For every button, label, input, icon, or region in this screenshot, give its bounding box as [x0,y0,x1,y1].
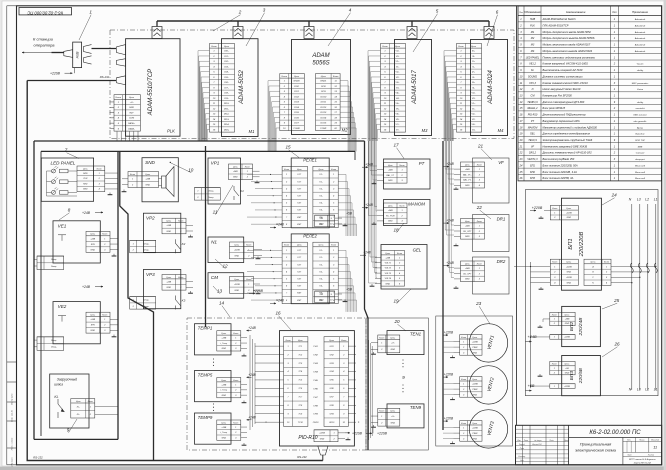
svg-text:Цепь: Цепь [472,379,477,381]
wire stubs &#1056;&#1045;&#1051;&#1045;1 right [335,174,357,236]
node +220V VENT1 [443,330,454,336]
svg-text:Датчик температурный ДТ3-800: Датчик температурный ДТ3-800 [542,100,585,104]
ground TEMP9 [242,443,247,445]
svg-text:Advantech: Advantech [634,44,646,47]
svg-text:K3: K3 [182,299,186,303]
svg-text:15: 15 [285,145,291,150]
svg-text:+24В: +24В [221,426,226,429]
wire stubs VE1 [110,239,118,250]
svg-text:Блок питания 220/5В, 3А: Блок питания 220/5В, 3А [543,176,574,180]
svg-text:Advantech: Advantech [634,50,646,53]
svg-text:TEMP5: TEMP5 [198,373,213,378]
fan VENT1 [469,324,507,362]
module PLK ADAM-5510/TCP [126,39,180,137]
svg-text:Конт: Конт [211,46,217,48]
wire harness vertical right of RELE [365,141,369,450]
svg-text:Конт: Конт [399,205,404,207]
ground VP3 [188,291,193,293]
svg-text:Клапан вакуумный VACOM-KLS-160: Клапан вакуумный VACOM-KLS-160S [543,62,589,66]
svg-text:SND: SND [145,160,155,165]
svg-text:Конт: Конт [245,166,250,168]
svg-text:Иванов И.И.: Иванов И.И. [532,444,542,446]
svg-text:1: 1 [479,268,480,270]
wire stubs TEMP5 [241,385,247,396]
svg-text:Аргус: Аргус [636,126,644,129]
svg-text:M2: M2 [531,37,535,40]
svg-text:t_Temp: t_Temp [220,389,228,392]
svg-text:Откр-: Откр- [51,266,57,268]
pin table BP3 output [550,361,575,374]
svg-text:Загрузочный: Загрузочный [57,378,77,382]
pin table TEMP9 [217,420,241,440]
wire risers PID to TEN [369,340,373,440]
svg-text:GND: GND [320,439,325,441]
svg-text:COM1: COM1 [320,128,327,130]
svg-text:Принципиальная: Принципиальная [580,442,612,447]
svg-text:DI5-: DI5- [224,77,228,79]
svg-text:KL-: KL- [77,414,80,416]
svg-text:Vacom: Vacom [637,64,644,66]
device VP3 pneumatic valve [143,270,180,309]
svg-text:Mean well: Mean well [635,172,645,174]
svg-text:электрическая схема: электрическая схема [575,448,616,453]
svg-text:DI1-: DI1- [224,56,228,58]
svg-text:Насос вакуумный Varian SH110: Насос вакуумный Varian SH110 [543,87,581,91]
svg-text:GND: GND [465,236,470,238]
section boundary power supplies [525,190,658,396]
controller PID-R10 [280,331,355,446]
svg-text:DI7-: DI7- [224,87,228,89]
svg-text:K1-: K1- [319,257,322,259]
svg-text:1: 1 [554,386,555,388]
device TEN1 heater [387,331,424,355]
svg-text:DO14: DO14 [320,116,326,119]
svg-text:Конт: Конт [552,208,557,210]
wire stubs CM [254,284,261,290]
svg-text:Цепь: Цепь [297,245,302,247]
device CM compressor [208,273,244,299]
svg-text:HUB: HUB [76,51,80,59]
node +220V supply to HUB [50,68,74,76]
ground TEMP5 [242,401,247,403]
svg-text:GND: GND [222,437,227,439]
wire stubs TEMP9 [241,427,247,438]
svg-text:Масса: Масса [640,440,645,442]
wire stubs &#1056;&#1045;&#1051;&#1045;2 left [247,250,282,301]
svg-text:Лит.: Лит. [626,440,631,442]
svg-text:MANOM: MANOM [408,202,425,207]
svg-text:DI8-: DI8- [224,93,228,95]
svg-text:RED: RED [83,183,88,185]
wire stubs VF [454,169,461,185]
pin table VE1 [86,231,110,252]
svg-text:Цепь: Цепь [294,76,300,78]
svg-text:GND: GND [146,184,151,186]
svg-text:M2: M2 [342,128,348,133]
ground LED PANEL [108,193,113,195]
svg-text:+24В: +24В [221,383,226,386]
svg-text:DR1,2: DR1,2 [529,152,537,155]
open-close connector table VP1 [194,188,220,201]
svg-text:Кол: Кол [612,11,617,14]
svg-text:1: 1 [333,174,334,176]
device TEMP5 temperature sensor [195,371,232,402]
svg-text:1: 1 [401,210,402,212]
svg-text:L1: L1 [654,388,658,392]
svg-text:Конт: Конт [130,174,135,176]
svg-text:L2: L2 [645,198,649,202]
pin table LED PANEL [77,166,105,192]
svg-text:GND: GND [222,348,227,350]
svg-text:SME: SME [638,146,643,148]
svg-text:GND: GND [391,423,396,425]
wire stubs GEL [375,258,381,284]
svg-text:SPS: SPS [91,244,96,246]
svg-text:masterkit: masterkit [636,107,645,110]
svg-text:VENT1,3: VENT1,3 [527,158,538,161]
svg-text:N: N [532,88,534,91]
pin table BP1 output left [550,259,578,285]
svg-text:Группа МТ11-112: Группа МТ11-112 [634,463,652,465]
svg-text:Лист: Лист [626,455,632,457]
node +24V TEMP9 [247,415,257,420]
open-close connector table VP2 [130,240,156,253]
antenna connector M3 [407,21,417,39]
pin table VE2 [86,312,110,333]
svg-text:V6-: V6- [396,119,400,121]
svg-text:БП2: БП2 [569,322,575,332]
svg-text:V0-: V0- [472,98,476,100]
svg-text:Цепь: Цепь [298,340,303,342]
node +24V DR2 [443,261,455,266]
svg-text:1: 1 [133,300,134,302]
device LED PANEL [41,158,93,201]
ground VP1 [255,181,260,183]
svg-text:DR1: DR1 [497,217,506,222]
antenna connector M1 [233,21,243,39]
svg-text:6: 6 [496,10,499,15]
svg-text:Цепь: Цепь [565,315,570,317]
svg-text:GND0: GND0 [294,81,301,83]
relay block &#1056;&#1045;&#1051;&#1045;1 [291,158,329,228]
ground BP2 [538,325,543,327]
svg-text:Конт: Конт [382,46,388,48]
svg-text:Модуль аналогового ввода ADAM-: Модуль аналогового ввода ADAM-5017 [543,43,591,47]
ground TEN1 [371,352,376,354]
svg-text:K2-: K2- [319,196,322,198]
connector forks on HUB [84,45,92,65]
pin table PID left [284,337,308,427]
pin table VENT3 [460,421,482,442]
svg-text:DO11: DO11 [321,102,327,104]
svg-text:SMC pneumatics: SMC pneumatics [632,82,650,85]
pin table BP2 input [550,335,575,340]
svg-text:PWM: PWM [472,389,477,391]
svg-text:Цепь: Цепь [224,46,230,48]
svg-text:Цепь: Цепь [465,263,470,265]
svg-text:HUB: HUB [530,18,536,21]
svg-text:DO8: DO8 [321,86,326,88]
svg-text:Конт: Конт [97,168,102,170]
svg-text:KL-: KL- [77,407,80,409]
svg-text:VOLT2: VOLT2 [385,268,392,270]
svg-text:1: 1 [104,319,105,321]
svg-text:Конт: Конт [397,253,402,255]
svg-text:RS-232: RS-232 [33,455,43,459]
power supply BP1 220/220V [562,198,602,290]
svg-text:+220В: +220В [472,341,479,343]
section boundary TEMP-PID (dashed) [187,318,366,450]
ground N1 [256,257,261,259]
device PT [384,159,431,189]
wires BP1 to mains [611,266,657,284]
svg-text:PT: PT [419,161,425,166]
svg-text:t_Temp: t_Temp [220,431,228,434]
svg-text:+24В: +24В [388,168,393,171]
svg-text:Лист: Лист [523,440,529,442]
svg-text:GEL: GEL [530,133,536,136]
svg-text:МГТУ имени Н.Э.Баумана: МГТУ имени Н.Э.Баумана [629,459,656,461]
svg-text:CH8: CH8 [313,405,318,407]
device SND speaker [142,158,178,202]
svg-text:K2: K2 [182,242,186,246]
svg-text:VP1: VP1 [211,161,220,166]
svg-text:GND: GND [167,231,172,233]
ground VENT3 [450,441,455,443]
svg-text:BAL_VT+: BAL_VT+ [463,173,472,176]
svg-text:GND: GND [235,290,240,292]
svg-text:+220В: +220В [377,432,388,436]
svg-text:VE1: VE1 [58,223,67,228]
mains lines N L3 L2 L1 [629,198,658,392]
svg-text:1: 1 [133,243,134,245]
svg-text:К станции: К станции [33,37,54,42]
svg-text:L3: L3 [637,388,641,392]
svg-text:17: 17 [393,143,399,148]
PLC assembly boundary (item 2) [110,30,514,139]
svg-text:GND: GND [83,189,88,191]
svg-text:+220В: +220В [566,266,573,268]
svg-text:1: 1 [288,346,289,348]
svg-text:22: 22 [476,205,483,210]
svg-text:CH4: CH4 [313,370,318,373]
svg-text:Откр-: Откр- [143,306,149,308]
svg-text:Конт: Конт [284,169,289,171]
svg-text:ОВО холдинг: ОВО холдинг [633,114,648,117]
svg-text:K1-: K1- [319,181,322,183]
wire harness vertical at VF-DR column [442,141,444,430]
svg-text:Цепь: Цепь [566,208,571,210]
module M2 ADAM 5056S [292,40,351,135]
svg-text:20: 20 [519,139,523,142]
wire harness left box [34,141,118,439]
wire stubs VP2 [186,225,193,231]
svg-text:DO2: DO2 [294,96,299,98]
ground VF [454,187,459,189]
svg-text:БП3: БП3 [530,177,535,180]
ellipsis between TEMP5 TEMP9 [213,403,214,411]
svg-text:BAL_VT-: BAL_VT- [463,179,471,182]
svg-text:PWM: PWM [472,433,477,435]
svg-text:Конт: Конт [246,244,251,246]
title block [516,425,662,465]
svg-text:I2-: I2- [472,77,475,79]
wire stubs DR1 [454,226,461,237]
svg-text:+24В: +24В [363,251,371,255]
svg-text:ADAM-5017: ADAM-5017 [411,70,418,105]
ground PT [372,182,377,184]
svg-text:Выключатель концевой AZ-7100: Выключатель концевой AZ-7100 [543,68,583,72]
svg-text:23: 23 [475,301,482,306]
svg-text:+24В: +24В [145,178,150,181]
svg-text:1: 1 [463,383,464,385]
svg-text:Цепь: Цепь [388,205,393,207]
ground SND [122,190,127,192]
svg-text:Масштаб: Масштаб [651,440,659,442]
limit switch KL [54,395,64,418]
device N1 vacuum pump [208,237,244,263]
svg-text:1: 1 [99,173,100,175]
relay contact K1 [234,186,244,200]
svg-text:+220В: +220В [444,372,454,376]
svg-text:GND: GND [388,180,393,182]
pin table &#1056;&#1045;&#1051;&#1045;2 right [313,242,338,303]
svg-text:Примечание: Примечание [632,10,649,14]
svg-text:DO12: DO12 [320,107,326,109]
svg-text:Varian: Varian [637,89,644,91]
svg-text:Поз: Поз [519,12,523,14]
wire stubs VP3 [186,282,193,288]
svg-text:ООО ТЭС: ООО ТЭС [635,140,646,142]
wire harness bus A [34,140,365,142]
svg-text:GND1: GND1 [320,81,327,83]
svg-text:COM: COM [129,118,134,120]
svg-text:К6-2-02.00.000 ПС: К6-2-02.00.000 ПС [589,430,641,436]
svg-text:Вентилятор HyBlade 350: Вентилятор HyBlade 350 [543,157,575,161]
svg-text:K1-: K1- [319,174,322,176]
svg-text:Конт: Конт [233,422,238,424]
svg-text:DO9: DO9 [321,91,326,93]
svg-text:Цепь: Цепь [319,245,324,247]
svg-text:DO4: DO4 [294,106,299,109]
svg-text:K3-: K3- [319,286,322,288]
svg-text:5: 5 [436,9,439,14]
svg-text:DU_OPT: DU_OPT [463,231,472,233]
node +24V GEL [360,251,372,257]
svg-text:Конт: Конт [461,337,466,339]
svg-text:Цепь: Цепь [565,364,570,366]
svg-text:DO3: DO3 [294,102,299,104]
pin table BP1 output right [584,259,611,285]
ground MANOM [372,222,377,224]
device TEMP9 temperature sensor [195,413,232,444]
node +220V TEN [366,428,388,436]
svg-text:+220В: +220В [564,337,571,339]
device VP1 pneumatic valve [208,158,241,204]
svg-text:LED PANEL: LED PANEL [526,56,540,59]
svg-text:Balashov: Balashov [636,134,646,136]
svg-text:5056S: 5056S [312,61,329,67]
pin table VP3 [162,275,186,291]
svg-text:1: 1 [381,343,382,345]
connector trapezoids on PLK left edge [117,45,126,85]
svg-text:19: 19 [393,299,399,304]
svg-text:Дата: Дата [563,440,569,442]
svg-text:DATA+: DATA+ [128,122,136,125]
wire stubs PT [377,170,384,181]
svg-text:RS-232: RS-232 [297,455,307,459]
svg-text:1: 1 [479,169,480,171]
svg-text:Н.контр.: Н.контр. [518,456,526,458]
svg-text:БП2: БП2 [530,171,535,174]
pin table VP1 [229,164,253,180]
svg-text:1: 1 [463,427,464,429]
svg-text:UR10: UR10 [329,422,335,424]
svg-text:16: 16 [275,311,281,316]
node +24V TEMP1 [247,326,257,331]
node +24V TEMP5 [247,373,257,378]
svg-text:PWM: PWM [472,347,477,349]
wire stubs &#1056;&#1045;&#1051;&#1045;1 left [247,174,282,225]
svg-text:1: 1 [554,368,555,370]
svg-text:8: 8 [68,208,71,213]
svg-text:GND: GND [91,330,96,332]
relay contact K2 [175,239,185,253]
svg-text:VP2: VP2 [146,216,155,221]
svg-text:VOLT3: VOLT3 [385,273,392,275]
limit contact table VE1 [34,256,64,270]
svg-text:ADAM-5052: ADAM-5052 [238,70,245,105]
svg-text:Цепь: Цепь [390,411,395,413]
svg-text:+5В: +5В [346,287,353,291]
antenna connector PLK [152,21,162,39]
svg-text:Динамик системы сигнализации: Динамик системы сигнализации [542,74,584,78]
wire fan M3 [368,51,381,141]
svg-text:+24В: +24В [528,335,537,339]
svg-text:Взам. инв.№: Взам. инв.№ [11,409,14,422]
LED indicators and resistors inside panel [47,166,78,196]
svg-text:Откр-: Откр- [208,191,214,193]
svg-text:Advantech: Advantech [634,37,646,40]
svg-text:Модуль дискретного ввода ADAM-: Модуль дискретного ввода ADAM-5052 [543,30,592,34]
svg-text:V2-: V2- [396,77,400,79]
svg-text:+24В: +24В [388,209,393,212]
pin table M1 [210,44,235,133]
svg-text:V4-: V4- [396,97,400,100]
svg-text:+24В: +24В [233,170,238,173]
svg-text:Манометр стрелочный с подводом: Манометр стрелочный с подводом АДМ100 [543,125,598,129]
svg-text:+24В: +24В [465,168,470,171]
svg-text:Цепь: Цепь [471,46,477,48]
svg-text:1: 1 [463,341,464,343]
svg-text:1: 1 [479,225,480,227]
svg-text:Конт: Конт [282,76,288,78]
power supply BP3 220/5V [562,356,601,396]
svg-text:+220В: +220В [234,284,241,286]
wire stubs LED PANEL [105,173,118,189]
wire fan M1 to field devices [198,51,210,141]
pin table &#1056;&#1045;&#1051;&#1045;1 right [313,166,338,227]
ground VE1 [112,254,117,256]
svg-text:1: 1 [89,10,92,15]
node +5V BP3 [526,384,535,391]
svg-text:Конт: Конт [399,165,404,167]
svg-text:DI2-: DI2- [224,61,228,63]
svg-text:3: 3 [263,8,266,13]
svg-text:+24В: +24В [385,256,390,259]
svg-text:K2-: K2- [319,271,322,273]
ground CM [256,292,261,294]
